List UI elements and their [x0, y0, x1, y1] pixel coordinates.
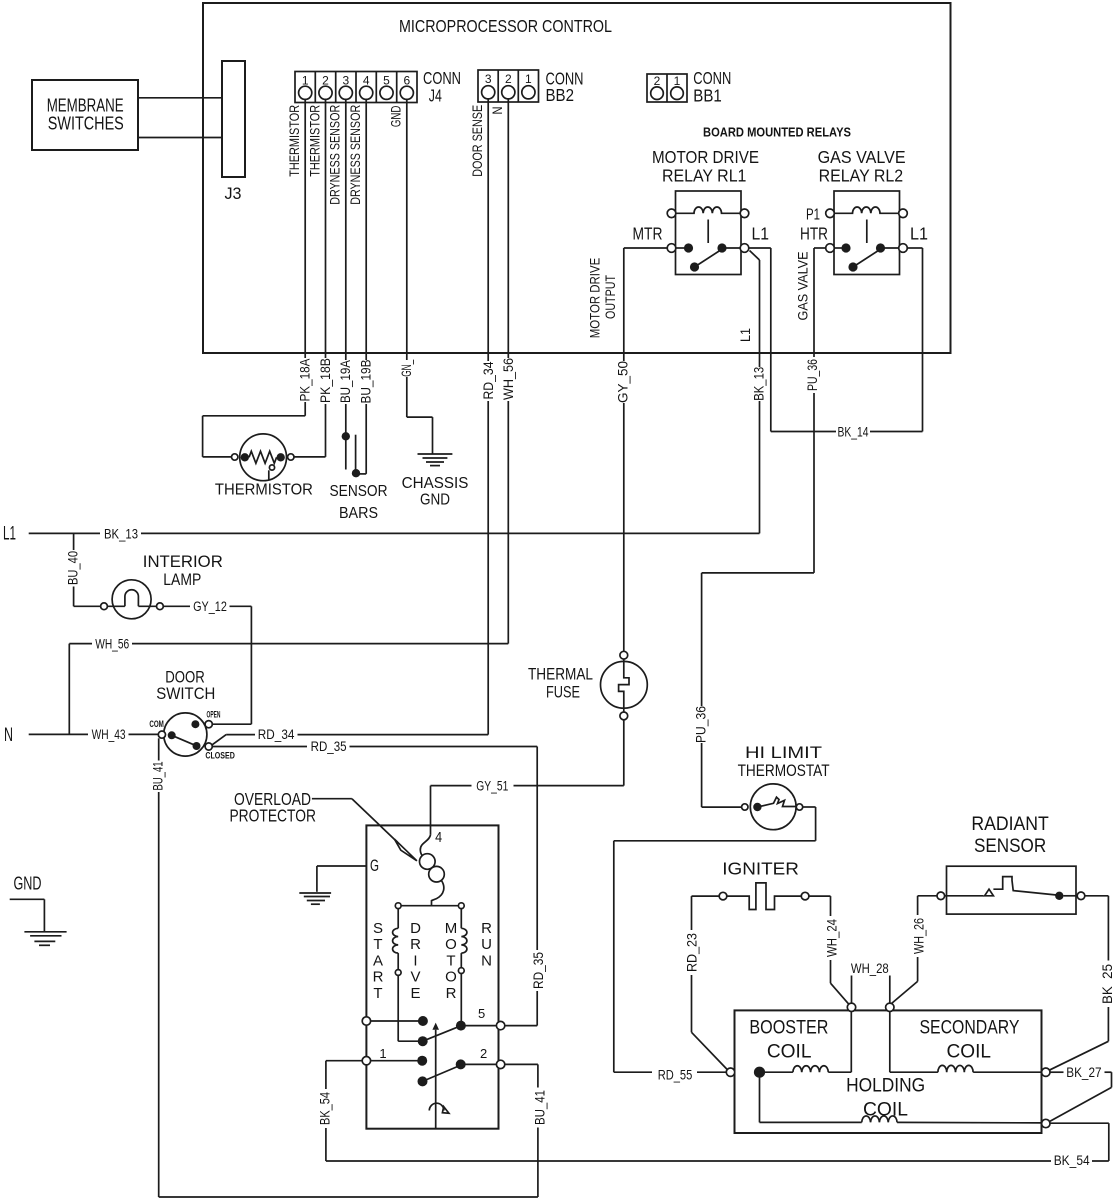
svg-text:START: START [373, 920, 384, 1002]
RL2 contact pin L1 [899, 244, 908, 253]
RL1 contact dots [684, 243, 693, 252]
RL2 coil pin P1 [826, 209, 835, 218]
svg-text:CHASSIS: CHASSIS [402, 475, 469, 492]
svg-text:GND: GND [420, 492, 450, 509]
connector BB1 [647, 74, 687, 102]
svg-text:INTERIOR: INTERIOR [143, 552, 223, 571]
BB2 pin 1 terminal [522, 86, 535, 99]
relay RL1 (motor drive) [652, 147, 759, 275]
BB1 pin 1 terminal [671, 87, 684, 100]
RL1 contact pin MTR [667, 244, 676, 253]
hi limit thermostat [750, 784, 796, 830]
svg-text:BOOSTER: BOOSTER [749, 1018, 828, 1039]
gas valve coil box [735, 1010, 1042, 1133]
svg-text:MEMBRANE: MEMBRANE [47, 96, 124, 116]
wire RD_34: BB2 pin3 down to door switch [487, 99, 489, 361]
svg-text:3: 3 [485, 72, 492, 86]
igniter [727, 883, 802, 910]
radiant sensor terminal right [1077, 892, 1085, 900]
thermal fuse [601, 659, 648, 712]
wire BU_19B: J4 pin4 to sensor bar [365, 99, 367, 360]
svg-text:THERMISTOR: THERMISTOR [287, 105, 302, 177]
svg-text:MOTOR DRIVE: MOTOR DRIVE [652, 147, 759, 167]
svg-text:GY_51: GY_51 [476, 778, 508, 793]
svg-text:PROTECTOR: PROTECTOR [229, 805, 316, 825]
svg-text:SECONDARY: SECONDARY [920, 1018, 1020, 1039]
ground symbol (motor G) [299, 893, 331, 904]
svg-text:GY_12: GY_12 [193, 599, 227, 614]
svg-text:BB2: BB2 [546, 85, 575, 105]
svg-text:BK_14: BK_14 [838, 424, 869, 439]
junction dot RD_55/booster/holding [754, 1067, 765, 1078]
svg-text:WH_24: WH_24 [824, 919, 839, 957]
wire BU_19A: J4 pin3 to sensor bar [345, 99, 347, 360]
hi limit terminal left [742, 804, 748, 810]
igniter terminal right [801, 892, 809, 900]
svg-text:THERMISTOR: THERMISTOR [215, 482, 313, 499]
svg-text:RELAY RL2: RELAY RL2 [819, 165, 904, 185]
svg-text:COIL: COIL [947, 1042, 992, 1063]
wire BU_41: door switch COM down, along bottom, up to motor pin 2 [158, 738, 160, 760]
svg-text:SWITCHES: SWITCHES [48, 114, 124, 134]
coil box terminal top left [847, 1003, 855, 1011]
igniter terminal left [719, 892, 727, 900]
microprocessor control board box [203, 3, 951, 353]
wire to GND symbol [10, 898, 45, 900]
overload protector element [420, 835, 445, 906]
svg-text:BU_41: BU_41 [151, 762, 166, 791]
RL2 contact pin HTR [826, 244, 835, 253]
svg-text:RD_55: RD_55 [658, 1067, 693, 1082]
coil box terminal right lower [1042, 1119, 1050, 1127]
coil box terminal top right [886, 1003, 894, 1011]
RL1 contact pin L1 [740, 244, 749, 253]
svg-text:WH_56: WH_56 [95, 636, 129, 651]
svg-text:MICROPROCESSOR CONTROL: MICROPROCESSOR CONTROL [399, 16, 612, 36]
svg-text:J4: J4 [429, 86, 442, 106]
RL1 coil pin right [740, 209, 749, 218]
BB2 pin function labels [470, 105, 505, 177]
lamp terminal left [101, 603, 108, 610]
RL1 coil pin left [667, 209, 676, 218]
connector J4 [295, 72, 417, 103]
winding terminal lower left [395, 970, 401, 976]
svg-text:THERMAL: THERMAL [528, 664, 593, 683]
lamp terminal right [157, 603, 164, 610]
centrifugal switch arm 1 [423, 1025, 462, 1041]
svg-text:MTR: MTR [633, 224, 663, 244]
start/drive winding [393, 909, 399, 970]
svg-text:SWITCH: SWITCH [156, 684, 215, 703]
rail terminal right [458, 903, 464, 909]
svg-text:BK_54: BK_54 [1054, 1153, 1090, 1168]
membrane switches block [32, 80, 138, 150]
svg-text:OPEN: OPEN [207, 710, 221, 720]
wire WH_28 jumper at coil box top [851, 976, 853, 1004]
wire GY_12: lamp to door switch OPEN contact [163, 605, 190, 607]
svg-text:L1: L1 [752, 224, 770, 244]
radiant sensor [945, 866, 1078, 914]
svg-text:L1: L1 [910, 224, 928, 244]
wire BK_54: holding coil out along bottom to motor pin 1 [1050, 1122, 1109, 1124]
svg-text:RD_23: RD_23 [684, 933, 699, 972]
wire start winding to switch contact [397, 975, 399, 1041]
thermistor terminal left [232, 454, 238, 460]
svg-text:BK_54: BK_54 [318, 1092, 333, 1125]
svg-text:GAS VALVE: GAS VALVE [818, 147, 906, 167]
RL2 coil pin right [899, 209, 908, 218]
svg-text:BU_19A: BU_19A [338, 360, 353, 403]
radiant sensor terminal left [937, 892, 945, 900]
svg-text:PK_18A: PK_18A [297, 359, 312, 402]
wire GN_: J4 pin6 to chassis ground [406, 99, 408, 360]
svg-text:HI LIMIT: HI LIMIT [745, 743, 822, 762]
svg-text:RADIANT: RADIANT [971, 814, 1049, 835]
svg-text:BU_40: BU_40 [66, 551, 81, 585]
thermal fuse terminal top [620, 651, 628, 659]
connector J3 [222, 61, 245, 177]
J4 pin 6 terminal [400, 86, 413, 99]
motor unused contact row [371, 1020, 423, 1022]
svg-text:5: 5 [383, 73, 390, 87]
thermal fuse terminal bottom [620, 712, 628, 720]
svg-text:5: 5 [478, 1006, 485, 1021]
hi limit terminal right [796, 804, 802, 810]
svg-text:BK_13: BK_13 [751, 367, 766, 401]
svg-text:WH_28: WH_28 [851, 961, 889, 976]
svg-text:PU_36: PU_36 [805, 359, 820, 391]
thermistor [240, 434, 287, 481]
svg-text:WH_43: WH_43 [92, 727, 126, 742]
svg-text:P1: P1 [806, 207, 820, 224]
wire GY_51: thermal fuse to motor pin 4 [623, 720, 625, 786]
sensor bars [342, 432, 361, 477]
svg-text:BU_41: BU_41 [533, 1090, 548, 1125]
svg-text:4: 4 [435, 829, 442, 846]
svg-text:GAS VALVE: GAS VALVE [795, 252, 811, 321]
J4 pin 4 terminal [360, 86, 373, 99]
coil box terminal right upper [1042, 1068, 1050, 1076]
wire WH_26: radiant sensor left to coil box top [918, 895, 937, 897]
svg-text:2: 2 [654, 74, 661, 88]
secondary coil [890, 1012, 1042, 1073]
svg-text:COM: COM [149, 719, 164, 729]
svg-text:OUTPUT: OUTPUT [602, 275, 618, 319]
wire WH_24: igniter right to coil box top [809, 895, 831, 897]
door switch COM terminal [158, 731, 165, 738]
svg-text:THERMISTOR: THERMISTOR [308, 105, 323, 177]
thermistor terminal right [288, 454, 294, 460]
svg-text:SENSOR: SENSOR [974, 836, 1046, 857]
svg-text:N: N [490, 107, 505, 115]
rail terminal left [395, 903, 401, 909]
wire BU_40: L1 rail to interior lamp [73, 533, 75, 550]
svg-text:PU_36: PU_36 [693, 706, 708, 743]
svg-text:BU_19B: BU_19B [359, 360, 374, 404]
svg-text:DOOR SENSE: DOOR SENSE [470, 105, 485, 177]
svg-text:LAMP: LAMP [163, 570, 201, 589]
svg-text:HOLDING: HOLDING [846, 1076, 925, 1097]
svg-text:MOTOR DRIVE: MOTOR DRIVE [587, 258, 603, 339]
svg-text:GY_50: GY_50 [616, 361, 631, 403]
svg-text:3: 3 [342, 73, 349, 87]
relay RL2 (gas valve) [818, 147, 906, 275]
wire BK_13: RL1 L1 pin down to L1 rail [750, 251, 760, 261]
J4 pin 2 terminal [319, 86, 332, 99]
chassis ground symbol [418, 454, 453, 466]
BB1 pin 2 terminal [651, 87, 664, 100]
svg-text:2: 2 [480, 1046, 487, 1061]
svg-text:WH_26: WH_26 [911, 918, 926, 954]
wire BK_25: radiant sensor right to secondary coil terminal [1085, 895, 1109, 897]
svg-text:BK_27: BK_27 [1066, 1065, 1101, 1080]
svg-text:FUSE: FUSE [546, 683, 580, 702]
svg-text:J3: J3 [225, 184, 242, 203]
svg-text:COIL: COIL [863, 1100, 908, 1121]
svg-text:CLOSED: CLOSED [205, 751, 235, 761]
svg-text:L1: L1 [3, 524, 16, 545]
holding coil [760, 1072, 1042, 1123]
RL2 contact dots [841, 243, 850, 252]
svg-text:MOTOR: MOTOR [445, 920, 458, 1002]
svg-text:1: 1 [379, 1046, 386, 1061]
wire PU_36: RL2 HTR pin down-left to hi limit thermostat [814, 247, 826, 249]
svg-text:6: 6 [403, 73, 410, 87]
svg-text:N: N [4, 725, 13, 746]
wire RD_23: igniter left to booster coil terminal [692, 895, 720, 897]
door switch [164, 713, 207, 756]
interior lamp [107, 580, 156, 619]
svg-text:RD_35: RD_35 [311, 739, 347, 754]
wire run winding to contact 5 [460, 974, 462, 1026]
svg-text:IGNITER: IGNITER [722, 858, 799, 878]
svg-text:GND: GND [389, 105, 404, 127]
wire BK_27: secondary coil out to holding coil out [1050, 1071, 1064, 1073]
J4 pin function labels [287, 105, 404, 205]
svg-text:SENSOR: SENSOR [330, 483, 388, 500]
wire GY_50: RL1 MTR pin down to thermal fuse [624, 247, 667, 249]
svg-text:1: 1 [525, 72, 532, 86]
ground symbol (GND left) [24, 932, 66, 946]
BB2 pin 3 terminal [482, 86, 495, 99]
booster coil [763, 1012, 851, 1073]
svg-text:1: 1 [302, 73, 309, 87]
motor winding top rail [398, 905, 461, 907]
centrifugal switch arm 2 [423, 1065, 463, 1082]
svg-text:PK_18B: PK_18B [318, 358, 333, 403]
connector BB2 [478, 70, 539, 102]
J4 pin 3 terminal [339, 86, 352, 99]
wire from RL1 L1 pin to BK_14 drop [749, 247, 771, 249]
motor box [366, 825, 498, 1128]
door switch OPEN terminal [205, 721, 212, 728]
BB2 pin 2 terminal [502, 86, 515, 99]
J4 pin 5 terminal [380, 86, 393, 99]
door switch CLOSED terminal [205, 743, 212, 750]
svg-text:GND: GND [14, 873, 42, 893]
svg-text:GN_: GN_ [399, 360, 414, 377]
svg-text:COIL: COIL [767, 1042, 812, 1063]
motor/run winding [461, 909, 467, 968]
svg-text:BK_13: BK_13 [104, 526, 138, 541]
svg-text:RD_34: RD_34 [258, 727, 295, 742]
wire PK_18A: J4 pin1 to thermistor left [304, 99, 306, 358]
svg-text:G: G [370, 856, 379, 875]
J4 pin 1 terminal [299, 86, 312, 99]
svg-text:THERMOSTAT: THERMOSTAT [738, 761, 830, 780]
wire PK_18B: J4 pin2 to thermistor right [325, 99, 327, 358]
wire BK_14: between relay L1 pins [771, 431, 836, 433]
wire RD_35: door switch CLOSED to motor pin 5 [212, 746, 307, 748]
svg-text:RELAY RL1: RELAY RL1 [662, 165, 747, 185]
svg-text:BOARD MOUNTED RELAYS: BOARD MOUNTED RELAYS [703, 125, 851, 140]
svg-text:RD_34: RD_34 [481, 361, 496, 399]
wire membrane switches to J3 (lower) [138, 137, 222, 139]
svg-text:2: 2 [505, 72, 512, 86]
svg-text:BB1: BB1 [693, 86, 722, 106]
coil box terminal left [726, 1068, 734, 1076]
wire WH_56: BB2 pin2 down and left to N rail [507, 99, 509, 358]
wire RD_55: hi limit right terminal to booster coil [803, 806, 816, 808]
label OVERLOAD PROTECTOR with pointer arrow [229, 789, 416, 861]
svg-text:BK_25: BK_25 [1100, 964, 1114, 1004]
svg-text:WH_56: WH_56 [501, 358, 516, 400]
wire membrane switches to J3 (upper) [138, 97, 222, 99]
svg-text:RD_35: RD_35 [531, 952, 546, 989]
svg-text:1: 1 [674, 74, 681, 88]
svg-text:DRYNESS SENSOR: DRYNESS SENSOR [348, 105, 363, 205]
svg-text:DRYNESS SENSOR: DRYNESS SENSOR [328, 105, 343, 205]
svg-text:HTR: HTR [800, 224, 828, 244]
svg-text:BARS: BARS [339, 505, 378, 522]
svg-text:RUN: RUN [481, 920, 492, 969]
centrifugal actuator [429, 1023, 449, 1129]
svg-text:L1: L1 [737, 328, 753, 342]
svg-text:2: 2 [322, 73, 329, 87]
winding terminal lower right [458, 968, 464, 974]
svg-text:4: 4 [363, 73, 370, 87]
